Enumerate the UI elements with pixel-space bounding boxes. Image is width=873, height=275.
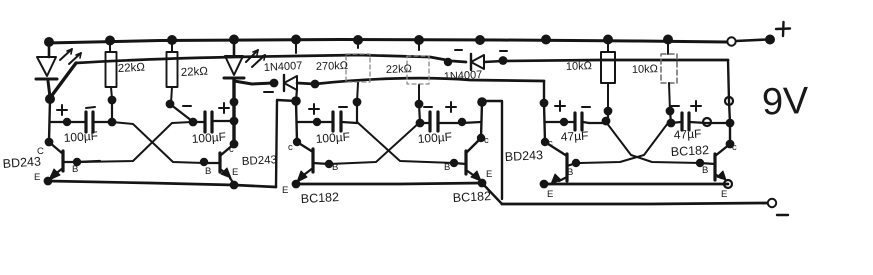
node: ground rail open terminal ring [768, 199, 776, 207]
wire: stage1 cross coupling C2 to Q1 base [78, 122, 192, 162]
node: top rail right open terminal ring [727, 37, 735, 45]
node: R1 bottom junction [108, 96, 117, 105]
wire: short stub below rail at x=296 [295, 41, 297, 53]
node: Q5 emitter junction [540, 180, 549, 189]
label: C1 minus polarity [86, 107, 95, 108]
wire: ground bottom rail [502, 203, 767, 204]
node: junction on LED2 drop x=234 y=102 [230, 98, 239, 107]
node: D1 anode junction [270, 79, 279, 88]
transistor Q3 BC182 (stage2 left) [297, 149, 329, 182]
label: C3 plus polarity [309, 104, 319, 114]
svg-text:c: c [288, 142, 293, 153]
svg-text:c: c [484, 135, 489, 146]
node: bracket junction above Q4 [477, 97, 487, 107]
node: rail junction at R2 [167, 35, 177, 45]
diode D1 1N4007 [284, 75, 297, 91]
label: + polarity of supply [776, 22, 790, 36]
node: rail junction at LED2 [229, 35, 239, 45]
svg-text:1N4007: 1N4007 [444, 69, 483, 83]
wire: stage2 cross coupling C3 to Q4 base [357, 122, 454, 163]
node: D2 cathode junction [499, 56, 508, 65]
label: minus polarity of supply [777, 214, 788, 216]
node: Q6 collector junction [726, 140, 735, 149]
wire: D1 cathode stub down [296, 89, 297, 101]
svg-text:B: B [567, 167, 573, 178]
label: C2 minus polarity [183, 105, 191, 107]
svg-text:E: E [282, 185, 288, 196]
transistor Q5 BD243 (stage3 left) [544, 154, 576, 184]
node: rail junction at R3 [353, 35, 363, 45]
svg-text:E: E [547, 189, 553, 200]
label: C6 minus polarity [671, 105, 679, 107]
node: Q2 base junction [200, 158, 208, 166]
wire: stage1 cross coupling C1 to Q2 base [112, 122, 204, 163]
wire: second rail from LED1 across to right side [50, 63, 76, 98]
wire: stage3 cross coupling C5 to Q6 base [606, 122, 700, 163]
svg-text:100µF: 100µF [63, 129, 98, 145]
resistor R1 22k [106, 42, 117, 99]
transistor Q2 BD243 (stage1 right) [204, 140, 238, 184]
wire: LED2 cathode down to Q2 collector [232, 80, 235, 145]
node: + terminal dot [765, 35, 775, 45]
wire: stage3 cross coupling C6 to Q5 base [580, 123, 668, 163]
node: Q5 base junction [572, 159, 580, 167]
svg-text:BC182: BC182 [300, 190, 339, 206]
node: C4 right junction [458, 118, 466, 126]
wire: C5 right to R5 bottom column [589, 122, 608, 124]
wire: right corner down to Q6 collector [728, 60, 730, 144]
label: stray minus mark under D1 [264, 91, 273, 93]
svg-text:BD243: BD243 [504, 148, 543, 164]
svg-text:10kΩ: 10kΩ [566, 60, 592, 73]
label: C5 minus polarity [582, 106, 590, 108]
wire: C1 right up to R1 [111, 100, 113, 122]
node: C6 left junction [667, 119, 676, 128]
node: R5 bottom junction [604, 107, 613, 116]
node: C6 right junction [703, 118, 711, 126]
label: C6 plus polarity [691, 101, 701, 111]
svg-text:10kΩ: 10kΩ [632, 63, 658, 76]
node: rail junction at LED1 [44, 37, 54, 47]
node: R3 bottom junction [353, 98, 362, 107]
node: junction under D1 cathode [291, 96, 301, 106]
transistor Q1 BD243 (stage1 left) [49, 100, 77, 180]
node: C3 left junction [313, 118, 321, 126]
diode D2 1N4007 on second rail [471, 54, 503, 70]
node: rail junction x=296 [291, 35, 301, 45]
node: rail junction at R4 [414, 35, 424, 45]
label: C2 plus polarity [219, 103, 229, 113]
svg-text:E: E [232, 167, 238, 178]
node: Q3 base junction [325, 160, 333, 168]
node: C5 right junction [602, 117, 611, 126]
svg-text:E: E [721, 189, 727, 200]
node: junction C6 right lead [726, 119, 735, 128]
label: stray minus marks near D2 [455, 50, 507, 51]
capacitor C6 47uF [671, 113, 729, 130]
node: D2 anode junction [444, 58, 452, 66]
LED D3 (left LED) [36, 43, 81, 97]
node: junction C2 right lead [230, 117, 239, 126]
node: rail junction at R6 [663, 35, 673, 45]
node: D1 cathode junction [311, 80, 320, 89]
svg-text:c: c [732, 142, 737, 153]
node: rail junction x=546 [541, 35, 551, 45]
wire: R5 bottom to C5 right [607, 111, 609, 123]
wire: long vertical from D1 anode down to stage1 bottom rail [276, 100, 296, 187]
node: LED1 cathode junction [45, 94, 55, 104]
node: R4 bottom junction [415, 100, 424, 109]
LED D4 (second LED) [224, 40, 265, 78]
node: C1 right junction [108, 118, 117, 127]
wire: stage2 emitter row [296, 183, 482, 184]
svg-text:BD243: BD243 [2, 154, 41, 171]
wire: stage1 emitter bottom rail [48, 181, 276, 187]
svg-text:22kΩ: 22kΩ [181, 66, 209, 79]
capacitor C2 100uF [193, 112, 234, 132]
node: Q2 emitter junction [230, 181, 239, 190]
node: R6 bottom junction [666, 107, 675, 116]
node: Q1 emitter junction at bottom [44, 177, 53, 186]
label: C4 minus polarity [424, 106, 432, 108]
wire: stage2 cross coupling C4 to Q3 base [329, 122, 420, 164]
label: C3 minus polarity [339, 106, 347, 108]
resistor R4 22k (dashed body) [407, 41, 429, 104]
svg-text:22kΩ: 22kΩ [386, 63, 412, 76]
resistor R2 22k [167, 41, 178, 103]
node: Q6 base junction [696, 159, 704, 167]
node: junction on x=544 drop [540, 99, 549, 108]
capacitor C5 47uF [545, 113, 589, 130]
resistor R5 10k [601, 41, 615, 111]
node: R2 bottom junction [166, 100, 175, 109]
svg-text:B: B [205, 166, 211, 177]
node: Q6 emitter junction [724, 180, 732, 188]
svg-text:100µF: 100µF [191, 130, 226, 146]
resistor R6 10k (dashed body) [661, 41, 677, 111]
node: rail junction at R1 [105, 36, 115, 46]
node: rail junction x=480 [475, 35, 485, 45]
wire: stage2 emitter diagonal to ground rail [482, 183, 502, 204]
transistor Q6 BC182 (stage3 right) [700, 144, 730, 180]
svg-text:22kΩ: 22kΩ [118, 62, 146, 75]
node: C5 left junction [560, 118, 568, 126]
node: Q4 base junction [450, 159, 458, 167]
wire: R6 bottom to C6 left [670, 111, 671, 123]
svg-text:E: E [486, 169, 492, 180]
capacitor C1 100uF [51, 112, 112, 132]
svg-text:BC182: BC182 [670, 143, 709, 159]
node: Q4 emitter junction [478, 179, 487, 188]
resistor R3 270k (dashed body) [346, 41, 370, 102]
capacitor C4 100uF [420, 112, 481, 131]
svg-text:E: E [34, 172, 40, 183]
svg-text:100µF: 100µF [417, 130, 452, 146]
wire: vertical to Q3 collector [296, 101, 313, 152]
node: C2 left junction [189, 118, 198, 127]
svg-text:B: B [702, 165, 708, 176]
wire: second rail continues to right corner [503, 60, 728, 61]
svg-text:270kΩ: 270kΩ [316, 60, 348, 73]
wire: +9V top supply rail [46, 40, 727, 44]
wire: stage3 emitter row [544, 183, 728, 186]
svg-text:100µF: 100µF [315, 130, 350, 146]
wire: bracket horizontal and long drop to ground rail [482, 101, 502, 199]
label: C1 plus polarity [57, 105, 67, 115]
transistor Q4 BC182 (stage2 right) [454, 102, 485, 181]
wire: R3 bottom to C3 right [356, 102, 358, 123]
wire: Q1 base stub [77, 161, 100, 162]
label: C5 plus polarity [555, 101, 565, 111]
svg-text:c: c [229, 144, 234, 155]
wire: R4 bottom to C4 left [419, 104, 420, 123]
svg-text:47µF: 47µF [560, 129, 588, 144]
capacitor C3 100uF [297, 112, 357, 131]
svg-text:B: B [444, 162, 450, 173]
wire: third rail from LED2 to x=544 [234, 81, 273, 84]
wire: third rail corner down to Q5 collector [544, 81, 567, 156]
node: junction on right drop y=101 [725, 97, 733, 105]
node: Q1 base junction [73, 158, 81, 166]
svg-text:c: c [548, 138, 553, 149]
node: rail junction at R5 [603, 35, 613, 45]
svg-text:9V: 9V [761, 80, 810, 124]
label: C4 plus polarity [446, 102, 456, 112]
wire: R2 bottom to C2 left [170, 104, 192, 121]
wire: top rail to + terminal [736, 40, 767, 42]
svg-text:47µF: 47µF [673, 127, 701, 142]
svg-text:1N4007: 1N4007 [264, 60, 303, 74]
node: C1 left junction [63, 118, 71, 126]
node: Q3 emitter junction [292, 180, 301, 189]
svg-text:BC182: BC182 [452, 189, 491, 205]
svg-text:BD243: BD243 [242, 154, 278, 168]
node: C4 left junction [416, 119, 425, 128]
